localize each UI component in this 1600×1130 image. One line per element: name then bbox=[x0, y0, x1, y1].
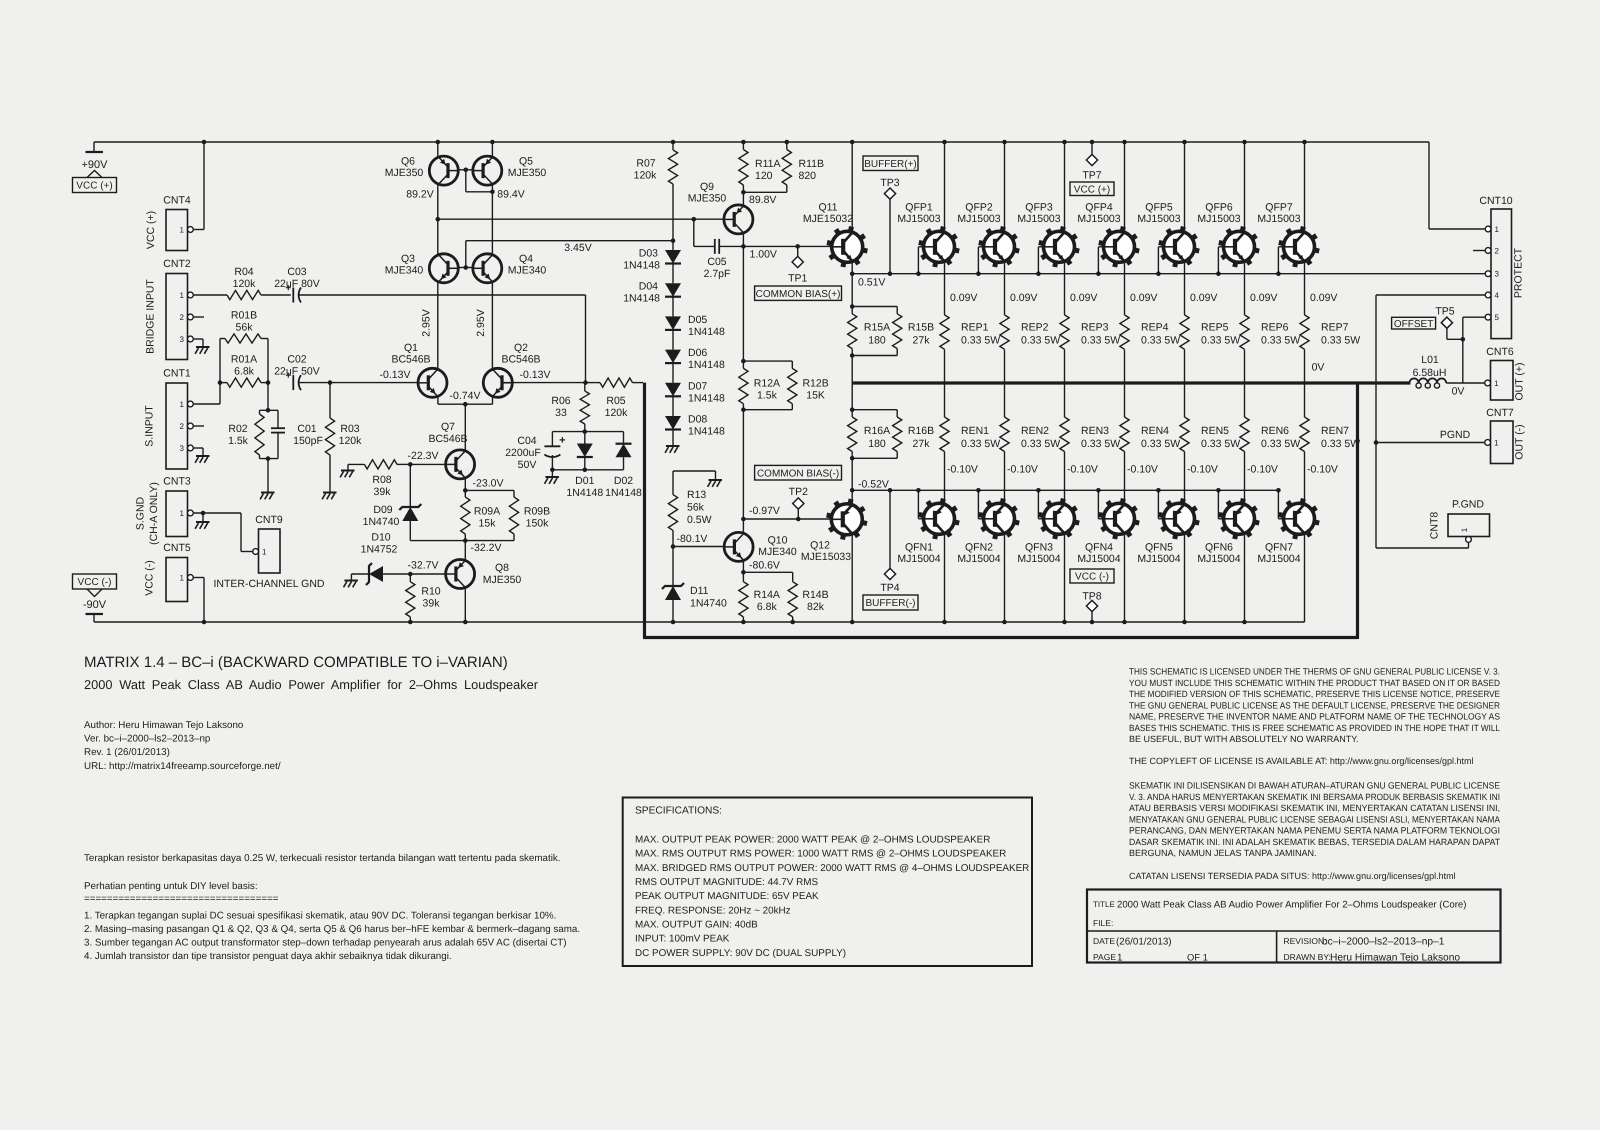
svg-text:1: 1 bbox=[180, 226, 185, 235]
node junction dots on -90V rail bbox=[202, 620, 1247, 625]
wire QFP2 base stub bbox=[976, 247, 983, 276]
svg-text:0.5W: 0.5W bbox=[687, 514, 712, 526]
wire Q5 collector to Q4 bbox=[491, 185, 493, 255]
svg-text:BC546B: BC546B bbox=[391, 354, 430, 366]
label 2.95V left bbox=[421, 309, 433, 336]
svg-text:REVISION:: REVISION: bbox=[1284, 936, 1327, 946]
transistor Q3 MJE340 bbox=[385, 253, 459, 283]
connector CNT7 OUT(-) bbox=[1485, 407, 1526, 464]
wire Q8 emitter up bbox=[464, 541, 466, 560]
resistor REP6 0.33 5W bbox=[1240, 315, 1300, 383]
svg-text:C02: C02 bbox=[287, 354, 306, 366]
resistor R11A 120 bbox=[739, 142, 781, 192]
svg-text:BUFFER(+): BUFFER(+) bbox=[864, 159, 917, 170]
transistor Q8 MJE350 bbox=[408, 560, 522, 589]
wire QFP2 emitter down bbox=[1005, 263, 1038, 315]
license paragraph indonesian bbox=[1129, 781, 1500, 859]
transistor Q7 BC546B bbox=[408, 421, 475, 479]
wire QFP6 collector to +90V rail bbox=[1244, 142, 1246, 231]
label 0V left of corner bbox=[1312, 362, 1325, 374]
svg-text:MJE340: MJE340 bbox=[508, 265, 547, 277]
svg-text:4. Jumlah transistor dan tipe: 4. Jumlah transistor dan tipe transistor… bbox=[84, 951, 452, 962]
wire D10/R10 to Q8 base bbox=[408, 572, 446, 577]
ground left of D10 bbox=[344, 581, 358, 588]
svg-text:150k: 150k bbox=[526, 518, 550, 530]
svg-text:89.2V: 89.2V bbox=[406, 189, 433, 201]
svg-text:0.33 5W: 0.33 5W bbox=[1141, 335, 1180, 347]
svg-text:Ver. bc–i–2000–ls2–2013–np: Ver. bc–i–2000–ls2–2013–np bbox=[84, 734, 211, 745]
svg-text:1N4740: 1N4740 bbox=[363, 516, 400, 528]
diode D02 1N4148 bbox=[605, 432, 642, 499]
svg-text:33: 33 bbox=[555, 407, 567, 419]
svg-text:+: + bbox=[559, 435, 565, 447]
svg-text:PROTECT: PROTECT bbox=[1513, 247, 1525, 298]
svg-text:PAGE: PAGE bbox=[1093, 952, 1116, 962]
svg-text:C05: C05 bbox=[707, 256, 726, 268]
wire QFP2 collector to +90V rail bbox=[1004, 142, 1006, 231]
resistor R09A 15k bbox=[461, 490, 500, 540]
svg-text:0.33 5W: 0.33 5W bbox=[1261, 335, 1300, 347]
license copyleft line bbox=[1129, 756, 1473, 766]
svg-text:REP3: REP3 bbox=[1081, 322, 1109, 334]
resistor R01A 6.8k bbox=[218, 354, 271, 388]
svg-text:THE MODIFIED VERSION OF THIS S: THE MODIFIED VERSION OF THIS SCHEMATIC, … bbox=[1129, 689, 1500, 699]
label box VCC(+) top bbox=[1070, 182, 1114, 196]
resistor REP5 0.33 5W bbox=[1180, 315, 1240, 383]
wire CNT7 pin1 PGND bbox=[1376, 429, 1485, 443]
capacitor C02 22uF 50V bbox=[274, 354, 417, 391]
svg-text:120: 120 bbox=[755, 170, 773, 182]
svg-text:QFN7: QFN7 bbox=[1265, 542, 1293, 554]
svg-text:MAX. RMS OUTPUT RMS POWER: 100: MAX. RMS OUTPUT RMS POWER: 1000 WATT RMS… bbox=[635, 849, 1006, 860]
svg-text:D07: D07 bbox=[688, 380, 707, 392]
wire CNT5 pin1 to -90V rail bbox=[194, 578, 204, 623]
svg-text:2: 2 bbox=[180, 422, 185, 431]
wire QFN2 emitter up bbox=[1005, 452, 1038, 504]
wire D10 to ground bbox=[350, 574, 352, 581]
resistor R16B 27k bbox=[893, 410, 935, 459]
wire QFN5 base stub bbox=[1156, 488, 1163, 519]
svg-text:QFP4: QFP4 bbox=[1085, 202, 1113, 214]
svg-text:CNT8: CNT8 bbox=[1429, 512, 1441, 540]
label box OFFSET bbox=[1392, 317, 1436, 329]
svg-text:0.09V: 0.09V bbox=[1130, 292, 1157, 304]
svg-text:1: 1 bbox=[1460, 527, 1469, 532]
wire QFN3 emitter up bbox=[1065, 452, 1098, 504]
svg-text:R14B: R14B bbox=[802, 589, 828, 601]
wire Q11 collector to rail bbox=[851, 142, 853, 231]
wire Q1/Q2 emitter rail bbox=[438, 390, 493, 407]
svg-text:-32.2V: -32.2V bbox=[471, 542, 502, 554]
wire CNT2 pin2 stub bbox=[194, 316, 204, 318]
svg-text:MJ15003: MJ15003 bbox=[1077, 213, 1120, 225]
resistor R07 120k bbox=[634, 142, 678, 250]
power flag +90V VCC(+) top left bbox=[73, 152, 117, 193]
label 1.00V bbox=[750, 249, 777, 261]
wire CNT8 to PGND net bbox=[1376, 542, 1469, 548]
svg-text:-80.1V: -80.1V bbox=[677, 533, 708, 545]
ground above R13 bbox=[708, 480, 722, 487]
connector CNT2 BRIDGE INPUT bbox=[145, 258, 194, 360]
svg-text:MJE15033: MJE15033 bbox=[801, 551, 851, 563]
label 2.95V right bbox=[475, 309, 487, 336]
svg-text:39k: 39k bbox=[374, 486, 392, 498]
svg-text:3. Sumber tegangan AC output t: 3. Sumber tegangan AC output transformat… bbox=[84, 938, 567, 949]
svg-text:QFN6: QFN6 bbox=[1205, 542, 1233, 554]
svg-text:BUFFER(-): BUFFER(-) bbox=[866, 598, 916, 609]
resistor R11B 820 bbox=[782, 142, 824, 192]
diode D03 1N4148 bbox=[623, 248, 681, 284]
svg-text:1: 1 bbox=[262, 548, 267, 557]
wire QFN4 emitter up bbox=[1125, 452, 1158, 504]
svg-text:R01B: R01B bbox=[231, 310, 257, 322]
svg-text:D08: D08 bbox=[688, 414, 707, 426]
svg-text:2200uF: 2200uF bbox=[505, 447, 541, 459]
svg-text:R15A: R15A bbox=[864, 322, 890, 334]
svg-text:CNT5: CNT5 bbox=[163, 542, 191, 554]
svg-text:NAME, PRESERVE THE INVENTOR NA: NAME, PRESERVE THE INVENTOR NAME AND PLA… bbox=[1129, 712, 1500, 722]
svg-text:820: 820 bbox=[799, 170, 817, 182]
resistor R08 39k bbox=[348, 460, 410, 498]
svg-text:0.33 5W: 0.33 5W bbox=[961, 335, 1000, 347]
label box VCC(-) right bbox=[1070, 569, 1114, 583]
inductor L01 6.58uH bbox=[1409, 354, 1446, 388]
transistor QFP2 MJ15003 bbox=[957, 202, 1019, 268]
svg-text:R08: R08 bbox=[372, 474, 391, 486]
svg-text:Q4: Q4 bbox=[519, 253, 533, 265]
svg-text:2: 2 bbox=[180, 313, 185, 322]
note item 1 bbox=[84, 911, 556, 922]
connector CNT1 S.INPUT bbox=[144, 368, 194, 470]
svg-text:MJE15032: MJE15032 bbox=[803, 213, 853, 225]
resistor REN2 0.33 5W bbox=[1000, 383, 1060, 452]
resistor R13 56k 0.5W bbox=[668, 471, 715, 547]
svg-text:3: 3 bbox=[180, 444, 185, 453]
svg-text:MAX. BRIDGED RMS OUTPUT POWER:: MAX. BRIDGED RMS OUTPUT POWER: 2000 WATT… bbox=[635, 863, 1029, 874]
svg-text:1N4752: 1N4752 bbox=[361, 544, 398, 556]
svg-text:REP2: REP2 bbox=[1021, 322, 1049, 334]
capacitor C05 2.7pF bbox=[692, 217, 744, 280]
svg-text:QFP1: QFP1 bbox=[905, 202, 933, 214]
svg-text:MJ15004: MJ15004 bbox=[957, 553, 1000, 565]
svg-text:R09B: R09B bbox=[524, 506, 550, 518]
svg-text:1N4148: 1N4148 bbox=[688, 326, 725, 338]
wire QFN6 emitter up bbox=[1245, 452, 1278, 504]
svg-text:SKEMATIK INI DILISENSIKAN DI: SKEMATIK INI DILISENSIKAN DI BAWAH ATURA… bbox=[1129, 781, 1500, 791]
svg-text:0.09V: 0.09V bbox=[1070, 292, 1097, 304]
resistor REP7 0.33 5W bbox=[1300, 315, 1360, 383]
svg-text:ATAU BERBASIS VERSI MODIFIKASI: ATAU BERBASIS VERSI MODIFIKASI SKEMATIK … bbox=[1129, 803, 1500, 813]
transistor QFP7 MJ15003 bbox=[1257, 202, 1319, 268]
wire C03 to Q2 base node bbox=[585, 295, 587, 383]
wire CNT4 pin1 to +90V rail bbox=[194, 142, 204, 230]
svg-text:MJE350: MJE350 bbox=[688, 193, 727, 205]
transistor QFN6 MJ15004 bbox=[1197, 499, 1259, 565]
svg-text:R12B: R12B bbox=[802, 378, 828, 390]
wire Q1 collector to Q3 bbox=[437, 282, 439, 369]
resistor REP4 0.33 5W bbox=[1120, 315, 1180, 383]
wire Q3/Q4 bases to diode chain bbox=[466, 241, 673, 254]
wire D01/D02 top rail bbox=[552, 431, 623, 433]
svg-text:1: 1 bbox=[1494, 439, 1499, 448]
svg-text:Perhatian penting untuk DIY le: Perhatian penting untuk DIY level basis: bbox=[84, 881, 258, 892]
svg-text:22uF 80V: 22uF 80V bbox=[274, 278, 320, 290]
svg-text:R02: R02 bbox=[228, 423, 247, 435]
svg-text:REP4: REP4 bbox=[1141, 322, 1169, 334]
svg-text:BASES THIS SCHEMATIC. THIS IS: BASES THIS SCHEMATIC. THIS IS FREE SCHEM… bbox=[1129, 723, 1500, 733]
svg-text:1: 1 bbox=[1495, 225, 1500, 234]
svg-text:PERANCANG, DAN MENYERTAKAN NAM: PERANCANG, DAN MENYERTAKAN NAMA PENEMU S… bbox=[1129, 826, 1500, 836]
test point TP2 bbox=[789, 486, 808, 519]
svg-text:R11B: R11B bbox=[799, 158, 825, 170]
svg-text:0V: 0V bbox=[1452, 386, 1465, 398]
svg-text:0.09V: 0.09V bbox=[1250, 292, 1277, 304]
wire Q5/Q6 base link bbox=[458, 168, 495, 195]
ground left of R08 bbox=[340, 471, 354, 478]
svg-text:REN7: REN7 bbox=[1321, 425, 1349, 437]
svg-text:S.GND: S.GND bbox=[135, 496, 147, 530]
svg-text:VCC (+): VCC (+) bbox=[145, 211, 157, 249]
svg-text:TP4: TP4 bbox=[880, 582, 899, 594]
svg-text:FREQ. RESPONSE: 20Hz ~ 20kHz: FREQ. RESPONSE: 20Hz ~ 20kHz bbox=[635, 905, 791, 916]
svg-text:VCC (-): VCC (-) bbox=[1075, 572, 1109, 583]
svg-text:COMMON BIAS(-): COMMON BIAS(-) bbox=[757, 468, 839, 479]
svg-text:1.5k: 1.5k bbox=[757, 390, 778, 402]
wire QFP6 emitter down bbox=[1245, 263, 1278, 315]
wire Q8 collector to -90V rail bbox=[464, 588, 466, 622]
wire Q12 collector down bbox=[851, 535, 853, 622]
svg-text:FILE:: FILE: bbox=[1093, 918, 1113, 928]
wire QFP4 emitter down bbox=[1125, 263, 1158, 315]
svg-text:QFN4: QFN4 bbox=[1085, 542, 1113, 554]
svg-text:MJ15003: MJ15003 bbox=[1197, 213, 1240, 225]
svg-text:-0.10V: -0.10V bbox=[1307, 464, 1338, 476]
zener diode D09 1N4740 bbox=[363, 464, 422, 540]
svg-text:-0.52V: -0.52V bbox=[858, 479, 889, 491]
svg-text:REN4: REN4 bbox=[1141, 425, 1169, 437]
note DIY heading bbox=[84, 881, 258, 892]
resistor R16A 180 bbox=[848, 383, 898, 458]
svg-text:Terapkan resistor berkapasitas: Terapkan resistor berkapasitas daya 0.25… bbox=[84, 853, 561, 864]
transistor QFP1 MJ15003 bbox=[897, 202, 959, 268]
svg-text:Q10: Q10 bbox=[768, 535, 788, 547]
svg-text:150pF: 150pF bbox=[293, 435, 323, 447]
svg-text:3: 3 bbox=[180, 335, 185, 344]
svg-text:Q11: Q11 bbox=[818, 202, 837, 214]
label 0V at CNT6 bbox=[1452, 386, 1465, 398]
capacitor C04 2200uF 50V bbox=[505, 432, 565, 471]
svg-text:URL: http://matrix14freeamp.so: URL: http://matrix14freeamp.sourceforge.… bbox=[84, 761, 281, 772]
svg-text:6.8k: 6.8k bbox=[234, 366, 255, 378]
svg-text:QFP7: QFP7 bbox=[1265, 202, 1293, 214]
svg-text:YOU MUST INCLUDE THIS SCHEMATI: YOU MUST INCLUDE THIS SCHEMATIC WITHIN T… bbox=[1129, 678, 1500, 688]
svg-text:REN2: REN2 bbox=[1021, 425, 1049, 437]
svg-text:5: 5 bbox=[1495, 313, 1500, 322]
svg-text:QFP5: QFP5 bbox=[1145, 202, 1173, 214]
svg-text:==============================: ================================== bbox=[84, 894, 279, 905]
svg-text:OUT (+): OUT (+) bbox=[1514, 362, 1526, 400]
wire QFP3 emitter down bbox=[1065, 263, 1098, 315]
svg-text:0.33 5W: 0.33 5W bbox=[1081, 335, 1120, 347]
svg-text:Q6: Q6 bbox=[401, 156, 415, 168]
wire QFP4 base stub bbox=[1096, 247, 1103, 276]
wire QFN5 collector to -90V rail bbox=[1184, 535, 1186, 622]
svg-text:1N4148: 1N4148 bbox=[688, 392, 725, 404]
license paragraph english bbox=[1129, 667, 1500, 745]
svg-text:1: 1 bbox=[1117, 953, 1122, 964]
label box BUFFER(+) bbox=[863, 156, 918, 171]
svg-text:QFN2: QFN2 bbox=[965, 542, 993, 554]
svg-text:0.33 5W: 0.33 5W bbox=[961, 438, 1000, 450]
transistor Q2 BC546B bbox=[483, 342, 550, 397]
svg-text:R13: R13 bbox=[687, 489, 706, 501]
svg-text:1N4148: 1N4148 bbox=[688, 426, 725, 438]
svg-text:R06: R06 bbox=[551, 395, 570, 407]
wire Q11 emitter to base rail bbox=[850, 263, 886, 289]
svg-text:-0.10V: -0.10V bbox=[1247, 464, 1278, 476]
svg-text:Q7: Q7 bbox=[441, 421, 455, 433]
wire QFN2 collector to -90V rail bbox=[1004, 535, 1006, 622]
transistor Q12 MJE15033 bbox=[801, 499, 867, 563]
svg-text:CNT2: CNT2 bbox=[163, 258, 191, 270]
transistor Q1 BC546B bbox=[380, 342, 447, 397]
ground at CNT3 pin1 bbox=[195, 522, 209, 529]
svg-text:D04: D04 bbox=[639, 281, 658, 293]
svg-text:15K: 15K bbox=[806, 390, 825, 402]
wire Q1/Q2 emitters to Q7 collector bbox=[464, 404, 466, 450]
wire top rail to CNT10 pin 1 bbox=[1429, 142, 1485, 229]
svg-text:VCC (+): VCC (+) bbox=[1074, 184, 1110, 195]
svg-text:0.33 5W: 0.33 5W bbox=[1261, 438, 1300, 450]
svg-text:QFP6: QFP6 bbox=[1205, 202, 1233, 214]
svg-text:4: 4 bbox=[1495, 291, 1500, 300]
svg-text:120k: 120k bbox=[339, 435, 363, 447]
svg-text:-80.6V: -80.6V bbox=[749, 560, 780, 572]
wire L01 to CNT6 bbox=[1446, 382, 1484, 384]
svg-text:0.51V: 0.51V bbox=[858, 277, 885, 289]
svg-text:D05: D05 bbox=[688, 314, 707, 326]
wire Q7 emitter down bbox=[463, 478, 503, 493]
svg-text:0.33 5W: 0.33 5W bbox=[1321, 335, 1360, 347]
wire C04 to ground bbox=[551, 470, 553, 477]
svg-text:DASAR SKEMATIK INI. INI ADALAH: DASAR SKEMATIK INI. INI ADALAH SKEMATIK … bbox=[1129, 837, 1500, 847]
svg-text:0.33 5W: 0.33 5W bbox=[1201, 335, 1240, 347]
wire QFP7 collector to +90V rail bbox=[1304, 142, 1306, 231]
diode D07 1N4148 bbox=[665, 380, 725, 416]
wire thick output bus bbox=[643, 383, 1410, 639]
svg-text:BC546B: BC546B bbox=[501, 354, 540, 366]
wire QFN4 collector to -90V rail bbox=[1124, 535, 1126, 622]
transistor QFN1 MJ15004 bbox=[897, 499, 959, 565]
svg-text:120k: 120k bbox=[634, 170, 658, 182]
svg-text:0.33 5W: 0.33 5W bbox=[1021, 335, 1060, 347]
transistor Q4 MJE340 bbox=[473, 253, 547, 283]
svg-text:2. Masing–masing pasangan Q1 &: 2. Masing–masing pasangan Q1 & Q2, Q3 & … bbox=[84, 924, 580, 935]
svg-text:OFFSET: OFFSET bbox=[1394, 319, 1433, 330]
svg-text:50V: 50V bbox=[518, 459, 537, 471]
wire R08 to ground bbox=[347, 464, 349, 470]
svg-text:-0.13V: -0.13V bbox=[520, 369, 551, 381]
svg-text:TP5: TP5 bbox=[1435, 306, 1454, 318]
svg-text:PGND: PGND bbox=[1440, 429, 1471, 441]
svg-text:CNT1: CNT1 bbox=[163, 368, 191, 380]
resistor R15B 27k bbox=[893, 307, 935, 356]
svg-text:1N4148: 1N4148 bbox=[623, 260, 660, 272]
svg-text:D06: D06 bbox=[688, 347, 707, 359]
svg-text:R14A: R14A bbox=[754, 589, 780, 601]
test point TP8 bbox=[1082, 591, 1101, 623]
svg-text:22uF 50V: 22uF 50V bbox=[274, 366, 320, 378]
svg-text:0.09V: 0.09V bbox=[1190, 292, 1217, 304]
svg-text:REP6: REP6 bbox=[1261, 322, 1289, 334]
svg-text:REP1: REP1 bbox=[961, 322, 989, 334]
svg-text:0.33 5W: 0.33 5W bbox=[1141, 438, 1180, 450]
note item 4 bbox=[84, 951, 452, 962]
wire QFP1 base stub bbox=[916, 247, 923, 276]
svg-text:P.GND: P.GND bbox=[1452, 499, 1484, 511]
svg-text:1: 1 bbox=[180, 400, 185, 409]
diode D06 1N4148 bbox=[665, 347, 725, 383]
svg-text:3: 3 bbox=[1495, 270, 1500, 279]
zener diode D10 1N4752 bbox=[351, 532, 410, 586]
note item 3 bbox=[84, 938, 567, 949]
svg-text:-23.0V: -23.0V bbox=[473, 478, 504, 490]
svg-text:0.09V: 0.09V bbox=[1010, 292, 1037, 304]
svg-text:MJE350: MJE350 bbox=[385, 167, 424, 179]
svg-text:89.8V: 89.8V bbox=[749, 194, 776, 206]
svg-text:Q12: Q12 bbox=[810, 540, 830, 552]
svg-text:DATE: DATE bbox=[1093, 936, 1115, 946]
svg-text:2.7pF: 2.7pF bbox=[704, 268, 731, 280]
wire QFN3 collector to -90V rail bbox=[1064, 535, 1066, 622]
wire QFN1 collector to -90V rail bbox=[944, 535, 946, 622]
svg-text:TP2: TP2 bbox=[789, 486, 808, 498]
svg-text:REN6: REN6 bbox=[1261, 425, 1289, 437]
wire QFN4 base stub bbox=[1096, 488, 1103, 519]
svg-text:6.8k: 6.8k bbox=[757, 601, 778, 613]
resistor REN3 0.33 5W bbox=[1060, 383, 1120, 452]
capacitor C03 22uF 80V bbox=[274, 266, 585, 303]
svg-text:2000 Watt Peak Class AB Audio: 2000 Watt Peak Class AB Audio Power Ampl… bbox=[1117, 900, 1466, 911]
wire Q9 base line bbox=[438, 218, 724, 220]
svg-text:MJ15003: MJ15003 bbox=[897, 213, 940, 225]
svg-text:MJE340: MJE340 bbox=[758, 546, 797, 558]
transistor Q10 MJE340 bbox=[724, 532, 797, 561]
wire Q9 collector down bbox=[741, 233, 746, 361]
resistor R06 33 bbox=[551, 383, 589, 434]
resistor R10 39k bbox=[406, 574, 441, 622]
svg-text:BRIDGE INPUT: BRIDGE INPUT bbox=[145, 279, 157, 354]
svg-text:180: 180 bbox=[868, 438, 886, 450]
svg-text:R16B: R16B bbox=[908, 425, 934, 437]
svg-text:VCC (-): VCC (-) bbox=[144, 560, 156, 596]
zener diode D11 1N4740 bbox=[662, 547, 727, 623]
resistor R04 120k bbox=[194, 266, 291, 300]
svg-text:D11: D11 bbox=[690, 585, 709, 597]
wire QFP5 collector to +90V rail bbox=[1184, 142, 1186, 231]
svg-text:MATRIX 1.4 – BC–i (BACKWARD CO: MATRIX 1.4 – BC–i (BACKWARD COMPATIBLE T… bbox=[84, 654, 508, 671]
svg-text:Author: Heru Himawan Tejo Laks: Author: Heru Himawan Tejo Laksono bbox=[84, 720, 244, 731]
svg-text:R01A: R01A bbox=[231, 354, 257, 366]
svg-text:2000 Watt Peak Class AB Audio: 2000 Watt Peak Class AB Audio Power Ampl… bbox=[84, 677, 539, 692]
svg-text:R03: R03 bbox=[340, 423, 359, 435]
wire D01/D02 bottom rail bbox=[550, 468, 623, 473]
svg-text:bc–i–2000–ls2–2013–np–1: bc–i–2000–ls2–2013–np–1 bbox=[1322, 937, 1445, 948]
wire R09 bottom rail bbox=[410, 538, 514, 554]
wire QFN1 base stub bbox=[916, 488, 923, 519]
wire CNT10 pin5 to output bbox=[1461, 317, 1485, 383]
svg-text:MJE340: MJE340 bbox=[385, 265, 424, 277]
